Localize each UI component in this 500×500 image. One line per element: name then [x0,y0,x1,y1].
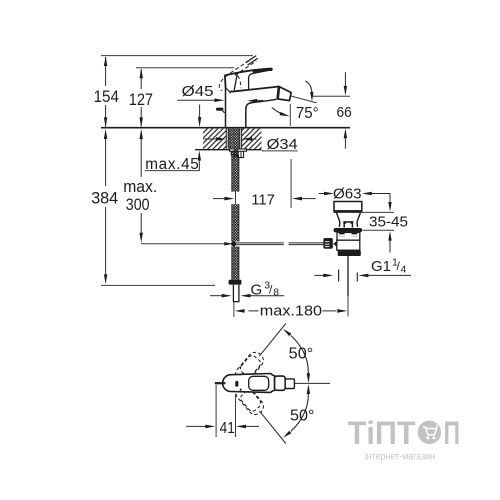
svg-text:max.: max. [123,177,157,196]
cart icon in circle [423,427,437,434]
horizontal pop-up rod to drain [236,242,284,244]
threaded tailpiece G1 1/4 [338,250,361,256]
deck top line [101,127,350,129]
dashed lever rotated down 50deg [233,381,267,417]
svg-text:max.180: max.180 [260,303,322,320]
housing / spout top edge [231,87,279,92]
svg-text:117: 117 [251,192,275,209]
rod ball joint inside drain boss [333,241,340,246]
lower 50deg arc with arrows [283,431,292,438]
svg-text:50°: 50° [289,345,314,362]
dashed lever tip strokes [246,56,257,63]
max.300 bottom reference line with arrow to hose joint [141,243,226,245]
spout end cap (rotated square) [277,87,291,101]
upper 50deg arc with arrows [283,329,292,336]
taper below flange [337,213,340,227]
extension of tube edge down for max.180 [233,302,235,317]
spout underside [246,99,277,127]
50deg boundary rays [259,324,285,357]
svg-text:75°: 75° [296,105,319,122]
lever neck front edge [234,73,237,91]
hose centerline through dimension gap [235,192,237,205]
pop-up rod knob at left [223,111,225,113]
extension line under spout tip [290,159,292,208]
body with slots [337,232,360,240]
lever knob bottom notch [226,88,232,93]
384 bottom reference line [101,284,215,286]
svg-text:384: 384 [91,189,118,208]
upper angle arc with arrow [305,81,312,93]
deck hole edges [225,129,227,150]
lower body [337,240,360,250]
clamp ring (dark band) [334,228,363,232]
deck bottom line [195,149,262,151]
svg-text:8: 8 [273,287,279,299]
svg-text:інтернет-магазин: інтернет-магазин [365,451,435,462]
svg-text:127: 127 [129,90,153,109]
flange (D63) [334,202,362,211]
svg-text:П: П [444,415,461,451]
svg-text:Ø45: Ø45 [182,84,214,100]
small square stem [344,222,352,228]
drain centerline extension [347,296,349,316]
svg-text:4: 4 [401,264,407,276]
knurled nut of rod linkage [323,238,332,249]
extension line lever rest height [136,67,234,69]
svg-text:154: 154 [94,87,119,106]
svg-text:66: 66 [337,104,352,121]
svg-text:Ø63: Ø63 [333,185,362,202]
tail centerline [347,256,349,296]
body left edge [225,88,227,127]
vertical reference under spout tip [289,104,291,126]
svg-text:G1: G1 [371,258,391,275]
spout axis slant line [290,96,317,103]
svg-text:ТіПТ: ТіПТ [348,415,416,451]
svg-text:41: 41 [220,420,235,437]
svg-text:50°: 50° [290,408,315,425]
svg-text:35-45: 35-45 [369,214,408,231]
extension line top (lever max height) [101,55,253,57]
horizontal reference at outlet [312,95,350,97]
plan view centerline [295,382,330,384]
lower angle arc with arrow [272,108,284,116]
lever back edge [224,75,227,88]
lever plan view (solid) [223,374,275,393]
svg-text:300: 300 [126,195,150,214]
rod pin at left [215,382,226,384]
dashed lever rotated up 50deg [232,349,266,385]
